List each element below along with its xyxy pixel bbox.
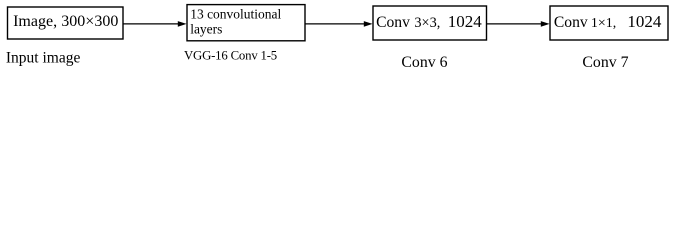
wire: arrow box2 to box3 <box>305 21 373 27</box>
svg-text:13 convolutional: 13 convolutional <box>190 7 281 22</box>
wire: arrow box1 to box2 <box>123 21 187 27</box>
svg-text:Image,300×300: Image,300×300 <box>13 13 118 30</box>
svg-text:Conv 7: Conv 7 <box>582 54 628 71</box>
box: Input image (Image, 300x300) <box>8 7 124 39</box>
svg-text:Conv 6: Conv 6 <box>401 54 447 71</box>
box: Conv 1x1, 1024 <box>550 6 668 40</box>
svg-text:Conv3×3,1024: Conv3×3,1024 <box>376 12 482 31</box>
box: VGG-16 13 convolutional layers <box>187 5 305 41</box>
svg-text:layers: layers <box>190 22 222 37</box>
wire: arrow box3 to box4 <box>487 21 550 27</box>
svg-text:VGG-16 Conv 1-5: VGG-16 Conv 1-5 <box>184 48 277 62</box>
svg-text:Input image: Input image <box>6 50 81 67</box>
box: Conv 3x3, 1024 <box>373 6 487 40</box>
svg-text:Conv1×1,1024: Conv1×1,1024 <box>554 12 662 31</box>
